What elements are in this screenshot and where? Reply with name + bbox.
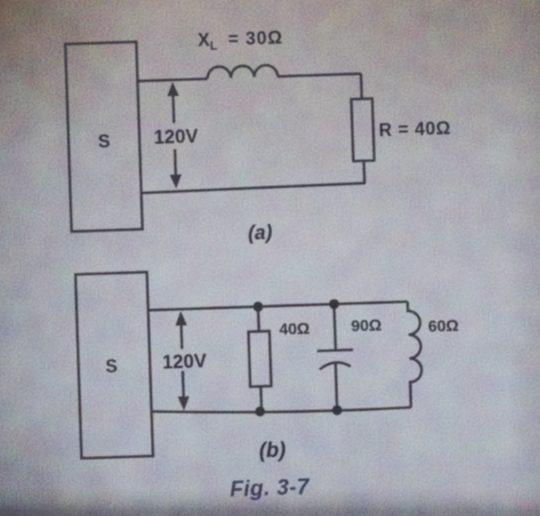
wire top (a) left (138, 79, 208, 81)
capacitor bottom plate (curved) (320, 362, 351, 369)
wire right (a) down to resistor (360, 74, 363, 99)
voltage arrow down (b) (181, 371, 184, 398)
voltage arrow up (a) (172, 95, 176, 123)
junction dot bottom right (b) (332, 405, 342, 415)
capacitor 90 ohm branch wire top (334, 304, 336, 350)
wire top (a) right (278, 74, 361, 77)
wire resistor to bottom (a) (363, 161, 366, 183)
resistor R (351, 99, 374, 162)
resistor 40 ohm (248, 331, 271, 387)
resistor 40 ohm branch wire top (257, 307, 260, 332)
inductor 60 ohm right branch (408, 301, 423, 407)
wire bottom (b) (152, 403, 412, 417)
voltage arrow up (b) (180, 323, 183, 349)
arrowhead down (a) (170, 174, 182, 188)
resistor 40 ohm branch wire bottom (259, 386, 262, 411)
capacitor branch wire bottom (335, 362, 337, 410)
junction dot top right (b) (329, 299, 339, 309)
junction dot bottom left (b) (255, 406, 265, 416)
capacitor top plate (317, 350, 353, 351)
inductor XL = 30 ohm (207, 65, 278, 79)
arrowhead down (b) (178, 396, 190, 411)
arrowhead up (b) (175, 311, 187, 326)
junction dot top left (b) (253, 301, 263, 311)
arrowhead up (a) (167, 81, 179, 96)
wire top (b) (148, 302, 407, 311)
wire bottom (a) (141, 183, 365, 193)
source S (a) (65, 42, 142, 232)
source S (b) (75, 272, 153, 458)
voltage arrow down (a) (174, 149, 177, 176)
